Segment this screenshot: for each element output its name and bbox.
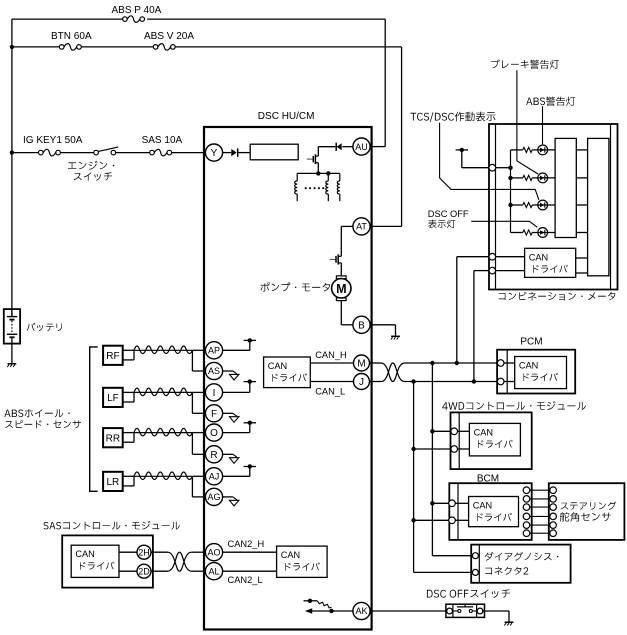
resistor DSC OFF indicator lamp [523, 230, 532, 235]
wire AS internal to ground arrow [223, 370, 233, 372]
label TCS/DSC indicator [410, 112, 495, 123]
junction meter feed row2 [508, 176, 512, 180]
fuse SAS 10A [150, 150, 155, 155]
module DSC HU/CM box [204, 127, 372, 630]
wire TCS/DSC indicator lamp row [511, 204, 523, 206]
svg-text:CAN: CAN [474, 427, 493, 437]
terminal PCM CAN_L pin [497, 378, 504, 385]
terminal BCM-steering link pin pair 5 [523, 522, 530, 529]
svg-text:IG KEY1 50A: IG KEY1 50A [23, 135, 83, 146]
svg-text:R: R [210, 450, 217, 461]
ic CAN driver SAS [71, 545, 119, 577]
label ABS wheel speed sensor line2 [5, 420, 81, 428]
sensor RF wheel speed sensor [103, 346, 123, 365]
module SAS control module box [62, 535, 153, 587]
wire CAN_L tap to BCM [414, 519, 449, 521]
terminal meter lamp feed pin [489, 164, 496, 171]
wire DSC OFF indicator lamp row [511, 232, 523, 234]
label diagnosis connector line2 [485, 567, 528, 575]
terminal AP [205, 342, 222, 359]
wire brake warning lamp to driver block [576, 149, 587, 151]
wire RR pair leads [123, 432, 134, 434]
wire brake warning lamp row [511, 149, 523, 151]
module BCM box [449, 483, 531, 540]
junction CAN_L at vertical bus [411, 379, 415, 383]
wire RF pair leads [123, 349, 134, 351]
wire CAN_H tap to BCM [432, 502, 448, 504]
bracket ABS wheel speed sensors [90, 347, 98, 491]
terminal AG [205, 488, 222, 505]
terminal Y [205, 144, 222, 161]
wire AP internal to supply [223, 349, 250, 351]
ground B terminal ground [391, 335, 400, 337]
terminal BCM-steering link pin pair 4 [523, 513, 530, 520]
wire Q1 source to solenoid bus [317, 163, 319, 174]
module PCM box [497, 350, 575, 394]
terminal M [354, 355, 370, 371]
wire CAN_H bus to PCM [405, 362, 498, 364]
ic CAN driver DSC CAN2 [277, 546, 328, 577]
inductor solenoid coil 1 [296, 173, 298, 181]
terminal AJ [205, 468, 222, 485]
junction CAN_H at vertical bus [430, 361, 434, 365]
wire BCM pins to driver [455, 502, 468, 504]
svg-text:LF: LF [107, 393, 119, 404]
leader ABS warning lamp [542, 106, 544, 144]
terminal F [205, 405, 222, 422]
wire meter tap CAN_H [456, 257, 458, 363]
wire AO to CAN2 driver [223, 551, 277, 553]
wire meter CAN driver to main block [576, 257, 588, 259]
wire meter CAN pins to driver [496, 256, 525, 258]
terminal BCM-steering link pin pair 2 [523, 496, 530, 503]
label steering angle sensor line2 [560, 512, 611, 522]
junction CAN_L BCM tap [411, 518, 415, 522]
ground DSC OFF switch ground [505, 621, 514, 623]
leader TCS/DSC indicator [440, 123, 539, 200]
wire LF pair leads [123, 391, 134, 393]
wire CAN_H vertical bus [431, 363, 433, 556]
ic CAN driver meter [525, 248, 576, 277]
ic CAN driver BCM [469, 497, 519, 527]
wire meter connector rail right [610, 124, 612, 290]
wire LR twisted pair [134, 475, 192, 477]
lamp ABS warning lamp [532, 177, 555, 179]
resistor AK pullup [317, 601, 331, 608]
terminal meter CAN_H pin [489, 253, 496, 260]
svg-text:CAN: CAN [529, 252, 548, 262]
battery [4, 309, 20, 344]
resistor TCS/DSC indicator lamp [523, 202, 532, 207]
wire AL to CAN2 driver [223, 570, 277, 572]
wire solenoid bus [297, 172, 340, 174]
wire RR twisted pair [134, 432, 192, 434]
lamp DSC OFF indicator lamp [532, 232, 555, 234]
sensor RR wheel speed sensor [103, 428, 123, 447]
terminal PCM CAN_H pin [497, 360, 504, 367]
svg-text:CAN2_L: CAN2_L [228, 575, 263, 585]
terminal 4WD CAN_L pin [451, 446, 458, 453]
label diagnosis connector line1 [485, 552, 559, 561]
svg-text:AS: AS [208, 366, 220, 376]
terminal diag CAN_L pin [472, 569, 478, 575]
wire ABS V drop to AT [401, 47, 403, 227]
svg-text:AT: AT [356, 222, 367, 232]
wire CAN_L vertical bus [413, 382, 415, 573]
svg-text:2D: 2D [138, 566, 150, 576]
label pump motor [261, 282, 331, 291]
label engine switch line2 [74, 172, 112, 181]
wire BCM connector rail [457, 483, 459, 540]
terminal 2D [137, 564, 151, 578]
wire F internal to ground arrow [223, 412, 233, 414]
diode D1 [231, 149, 236, 156]
svg-text:F: F [211, 409, 217, 420]
resistor ABS warning lamp [523, 175, 532, 180]
svg-text:B: B [358, 320, 365, 331]
wire LF twisted pair [134, 391, 192, 393]
transistor Q1 FET gate lead [307, 158, 313, 160]
wire AG internal to ground arrow [223, 496, 233, 498]
terminal meter CAN_L pin [489, 267, 496, 274]
leader brake warning lamp [517, 70, 538, 174]
wire Q2 source to motor [340, 263, 342, 276]
label DSC OFF switch [427, 589, 510, 598]
fuse ABS P 40A [123, 17, 128, 22]
svg-text:RR: RR [106, 433, 120, 444]
wire AT to pump branch [341, 225, 353, 227]
inductor solenoid coil 3 [339, 173, 341, 181]
terminal I [205, 384, 222, 401]
resistor brake warning lamp [523, 147, 532, 152]
wire RF to terminals [192, 349, 205, 351]
wire O internal to supply [223, 432, 250, 434]
terminal BCM-steering link pin pair 6 [523, 530, 530, 537]
wire BTN/ABS V line [12, 46, 60, 48]
wire PCM connector rail [506, 350, 508, 394]
wire diode to solenoid relay box [238, 152, 251, 154]
module combination meter box [489, 124, 618, 290]
node B+ left rail wire [11, 19, 13, 316]
svg-text:Y: Y [211, 148, 218, 159]
svg-text:AJ: AJ [209, 472, 220, 482]
wire CAN twisted pair after M/J [381, 363, 405, 382]
label brake warning lamp [491, 59, 559, 68]
wire LR to terminals [192, 475, 205, 477]
svg-text:O: O [210, 428, 218, 439]
junction CAN_H at meter tap [455, 361, 459, 365]
svg-text:2H: 2H [138, 547, 150, 557]
wire meter supply to terminal [461, 150, 463, 168]
terminal R [205, 446, 222, 463]
ellipsis dots between coils [305, 187, 307, 189]
wire IG KEY1 line [12, 152, 39, 154]
label ABS wheel speed sensor line1 [4, 409, 69, 417]
wire Y to diode [223, 152, 232, 154]
module steering angle sensor box [549, 483, 625, 540]
ground F internal ground arrow [233, 413, 237, 416]
junction meter feed row1 [508, 166, 512, 170]
svg-text:AK: AK [355, 606, 367, 616]
node I supply bar [244, 381, 256, 383]
wire CAN driver to J [310, 381, 353, 383]
ic CAN driver PCM [515, 357, 567, 389]
svg-text:LR: LR [107, 477, 120, 488]
ground R internal ground arrow [233, 454, 237, 457]
wire meter lamp feed vertical [510, 150, 512, 233]
wire AJ internal to supply [223, 475, 250, 477]
svg-text:ABS P 40A: ABS P 40A [112, 5, 162, 16]
inductor solenoid coil 2 [327, 173, 329, 181]
junction CAN_H 4WD tap [430, 429, 434, 433]
wire CAN_L bus to diag [413, 571, 415, 573]
wire CAN_H bus to diag [432, 555, 472, 557]
svg-text:ABS V 20A: ABS V 20A [144, 31, 194, 42]
terminal diag CAN_H pin [472, 553, 478, 559]
svg-text:J: J [359, 377, 364, 388]
wire AK to DSC OFF switch [370, 610, 446, 612]
wire CAN driver to M [310, 362, 353, 364]
svg-text:CAN2_H: CAN2_H [228, 539, 265, 549]
junction on left rail at IG KEY1 line [10, 150, 14, 154]
svg-text:AG: AG [207, 492, 220, 502]
svg-text:CAN: CAN [268, 361, 287, 371]
svg-text:AL: AL [208, 566, 219, 576]
svg-text:DSC HU/CM: DSC HU/CM [258, 111, 315, 122]
svg-text:DSC OFF: DSC OFF [428, 209, 469, 219]
ground AS internal ground arrow [233, 371, 237, 374]
wire RR to terminals [192, 432, 205, 434]
terminal AT [353, 218, 370, 235]
label steering angle sensor line1 [561, 502, 617, 510]
ic CAN driver 4WD [469, 423, 520, 456]
terminal AL [205, 563, 222, 580]
terminal B [353, 316, 370, 333]
junction AK pullup to line [329, 609, 333, 613]
wire ABS warning lamp to driver block [576, 177, 587, 179]
wire 4WD connector rail [458, 412, 460, 469]
junction CAN_L at meter tap [472, 379, 476, 383]
junction solenoid bus at coil2 [326, 171, 330, 175]
ground AG internal ground arrow [233, 497, 237, 500]
svg-text:PCM: PCM [520, 337, 542, 348]
wire TCS/DSC indicator lamp to driver block [576, 204, 587, 206]
svg-text:CAN: CAN [75, 549, 94, 559]
svg-text:AP: AP [208, 346, 220, 356]
wire ABS P drop to AU [384, 19, 386, 147]
lamp brake warning lamp [532, 149, 555, 151]
wire CAN_L tap to 4WD [414, 448, 451, 450]
transistor Q1 FET [312, 156, 314, 162]
terminal O [205, 424, 222, 441]
label 4WD control module [442, 401, 586, 410]
module diagnosis connector 2 box [471, 545, 570, 583]
wire I internal to supply [223, 391, 250, 393]
wire motor to B [340, 301, 342, 325]
svg-text:CAN: CAN [473, 501, 492, 511]
node AJ supply bar [244, 466, 256, 468]
terminal J [354, 374, 370, 390]
junction on left rail at BTN line [10, 45, 14, 49]
wire switch to ground [482, 610, 509, 612]
diode D2 [337, 143, 342, 150]
wire PCM pins to driver [504, 362, 515, 364]
svg-text:AU: AU [355, 142, 368, 152]
terminal 4WD CAN_H pin [451, 428, 458, 435]
terminal BCM CAN_H pin [449, 500, 456, 507]
fuse BTN 60A [59, 45, 64, 50]
wire diag connector rail [478, 545, 480, 583]
wire LR pair leads [123, 475, 134, 477]
wire RF twisted pair [134, 349, 192, 351]
wire 4WD pins to driver [458, 430, 470, 432]
svg-text:CAN_L: CAN_L [315, 386, 345, 396]
module 4WD control module box [451, 412, 532, 469]
node AP supply bar [244, 339, 256, 341]
terminal BCM-steering link pin pair 1 [523, 487, 530, 494]
svg-text:RF: RF [106, 351, 119, 362]
switch DSC OFF switch [446, 604, 485, 617]
wire Q1 drain to AU line [317, 147, 319, 156]
terminal AU [353, 138, 370, 155]
wire LF to terminals [192, 391, 205, 393]
label battery [27, 323, 62, 332]
svg-text:SAS 10A: SAS 10A [142, 135, 183, 146]
junction meter feed row3 [508, 203, 512, 207]
node AK pullup supply [304, 600, 311, 602]
svg-text:BTN 60A: BTN 60A [51, 31, 92, 42]
node meter lamp supply bar [456, 149, 468, 151]
wire AU line with diode [318, 146, 335, 148]
wire ABS P 40A feed line [12, 18, 123, 20]
arrow AK internal signal arrowhead [305, 608, 312, 613]
label combination meter [499, 292, 616, 301]
relay coil box [250, 144, 298, 160]
terminal AS [205, 362, 222, 379]
node O supply bar [244, 422, 256, 424]
svg-text:M: M [357, 359, 365, 370]
ic meter main block [588, 138, 609, 275]
leader DSC OFF indicator [471, 221, 537, 227]
svg-text:CAN_H: CAN_H [315, 350, 347, 360]
lamp TCS/DSC indicator lamp [532, 204, 555, 206]
sensor LF wheel speed sensor [103, 388, 123, 407]
junction CAN_L 4WD tap [411, 447, 415, 451]
wire meter connector rail left [495, 124, 497, 290]
wire CAN2 twisted pair [151, 551, 168, 553]
ic meter driver block [555, 138, 576, 237]
transistor Q2 FET [335, 256, 337, 263]
wire meter feed internal [496, 167, 511, 169]
transistor Q2 FET gate lead [330, 259, 336, 261]
terminal AK [353, 602, 370, 619]
motor pump motor M [336, 276, 346, 279]
wire ABS warning lamp row [511, 177, 523, 179]
switch engine switch [94, 150, 99, 155]
junction solenoid bus at Q1 [316, 171, 320, 175]
svg-text:I: I [213, 388, 216, 399]
wire CAN_H tap to 4WD [432, 430, 451, 432]
wire DSC OFF indicator lamp to driver block [576, 232, 587, 234]
wire SAS fuse to terminal Y [172, 152, 206, 154]
wire battery to ground [11, 344, 13, 364]
terminal BCM CAN_L pin [449, 517, 456, 524]
fuse ABS V 20A [153, 45, 158, 50]
svg-text:CAN: CAN [281, 550, 300, 560]
label ABS warning lamp [526, 97, 575, 106]
wire AK internal signal [311, 610, 353, 612]
fuse IG KEY1 50A [39, 150, 44, 155]
ic CAN driver DSC main [264, 357, 311, 388]
label engine switch line1 [68, 161, 114, 170]
terminal AO [205, 544, 222, 561]
wire meter tap CAN_L [473, 271, 475, 382]
svg-text:CAN: CAN [519, 361, 538, 371]
terminal BCM-steering link pin pair 3 [523, 504, 530, 511]
wire B to ground [370, 324, 395, 326]
svg-text:M: M [336, 282, 346, 296]
junction CAN_H BCM tap [430, 501, 434, 505]
wire SAS driver to pins [119, 551, 137, 553]
svg-text:AO: AO [207, 547, 220, 557]
terminal 2H [137, 545, 151, 559]
wire switch to SAS fuse [116, 152, 150, 154]
wire R internal to ground arrow [223, 453, 233, 455]
label DSC OFF indicator line2 [428, 220, 455, 229]
label SAS control module [43, 521, 179, 530]
wire CAN_L bus to PCM [405, 381, 498, 383]
sensor LR wheel speed sensor [103, 472, 123, 491]
ground battery ground [8, 363, 17, 365]
